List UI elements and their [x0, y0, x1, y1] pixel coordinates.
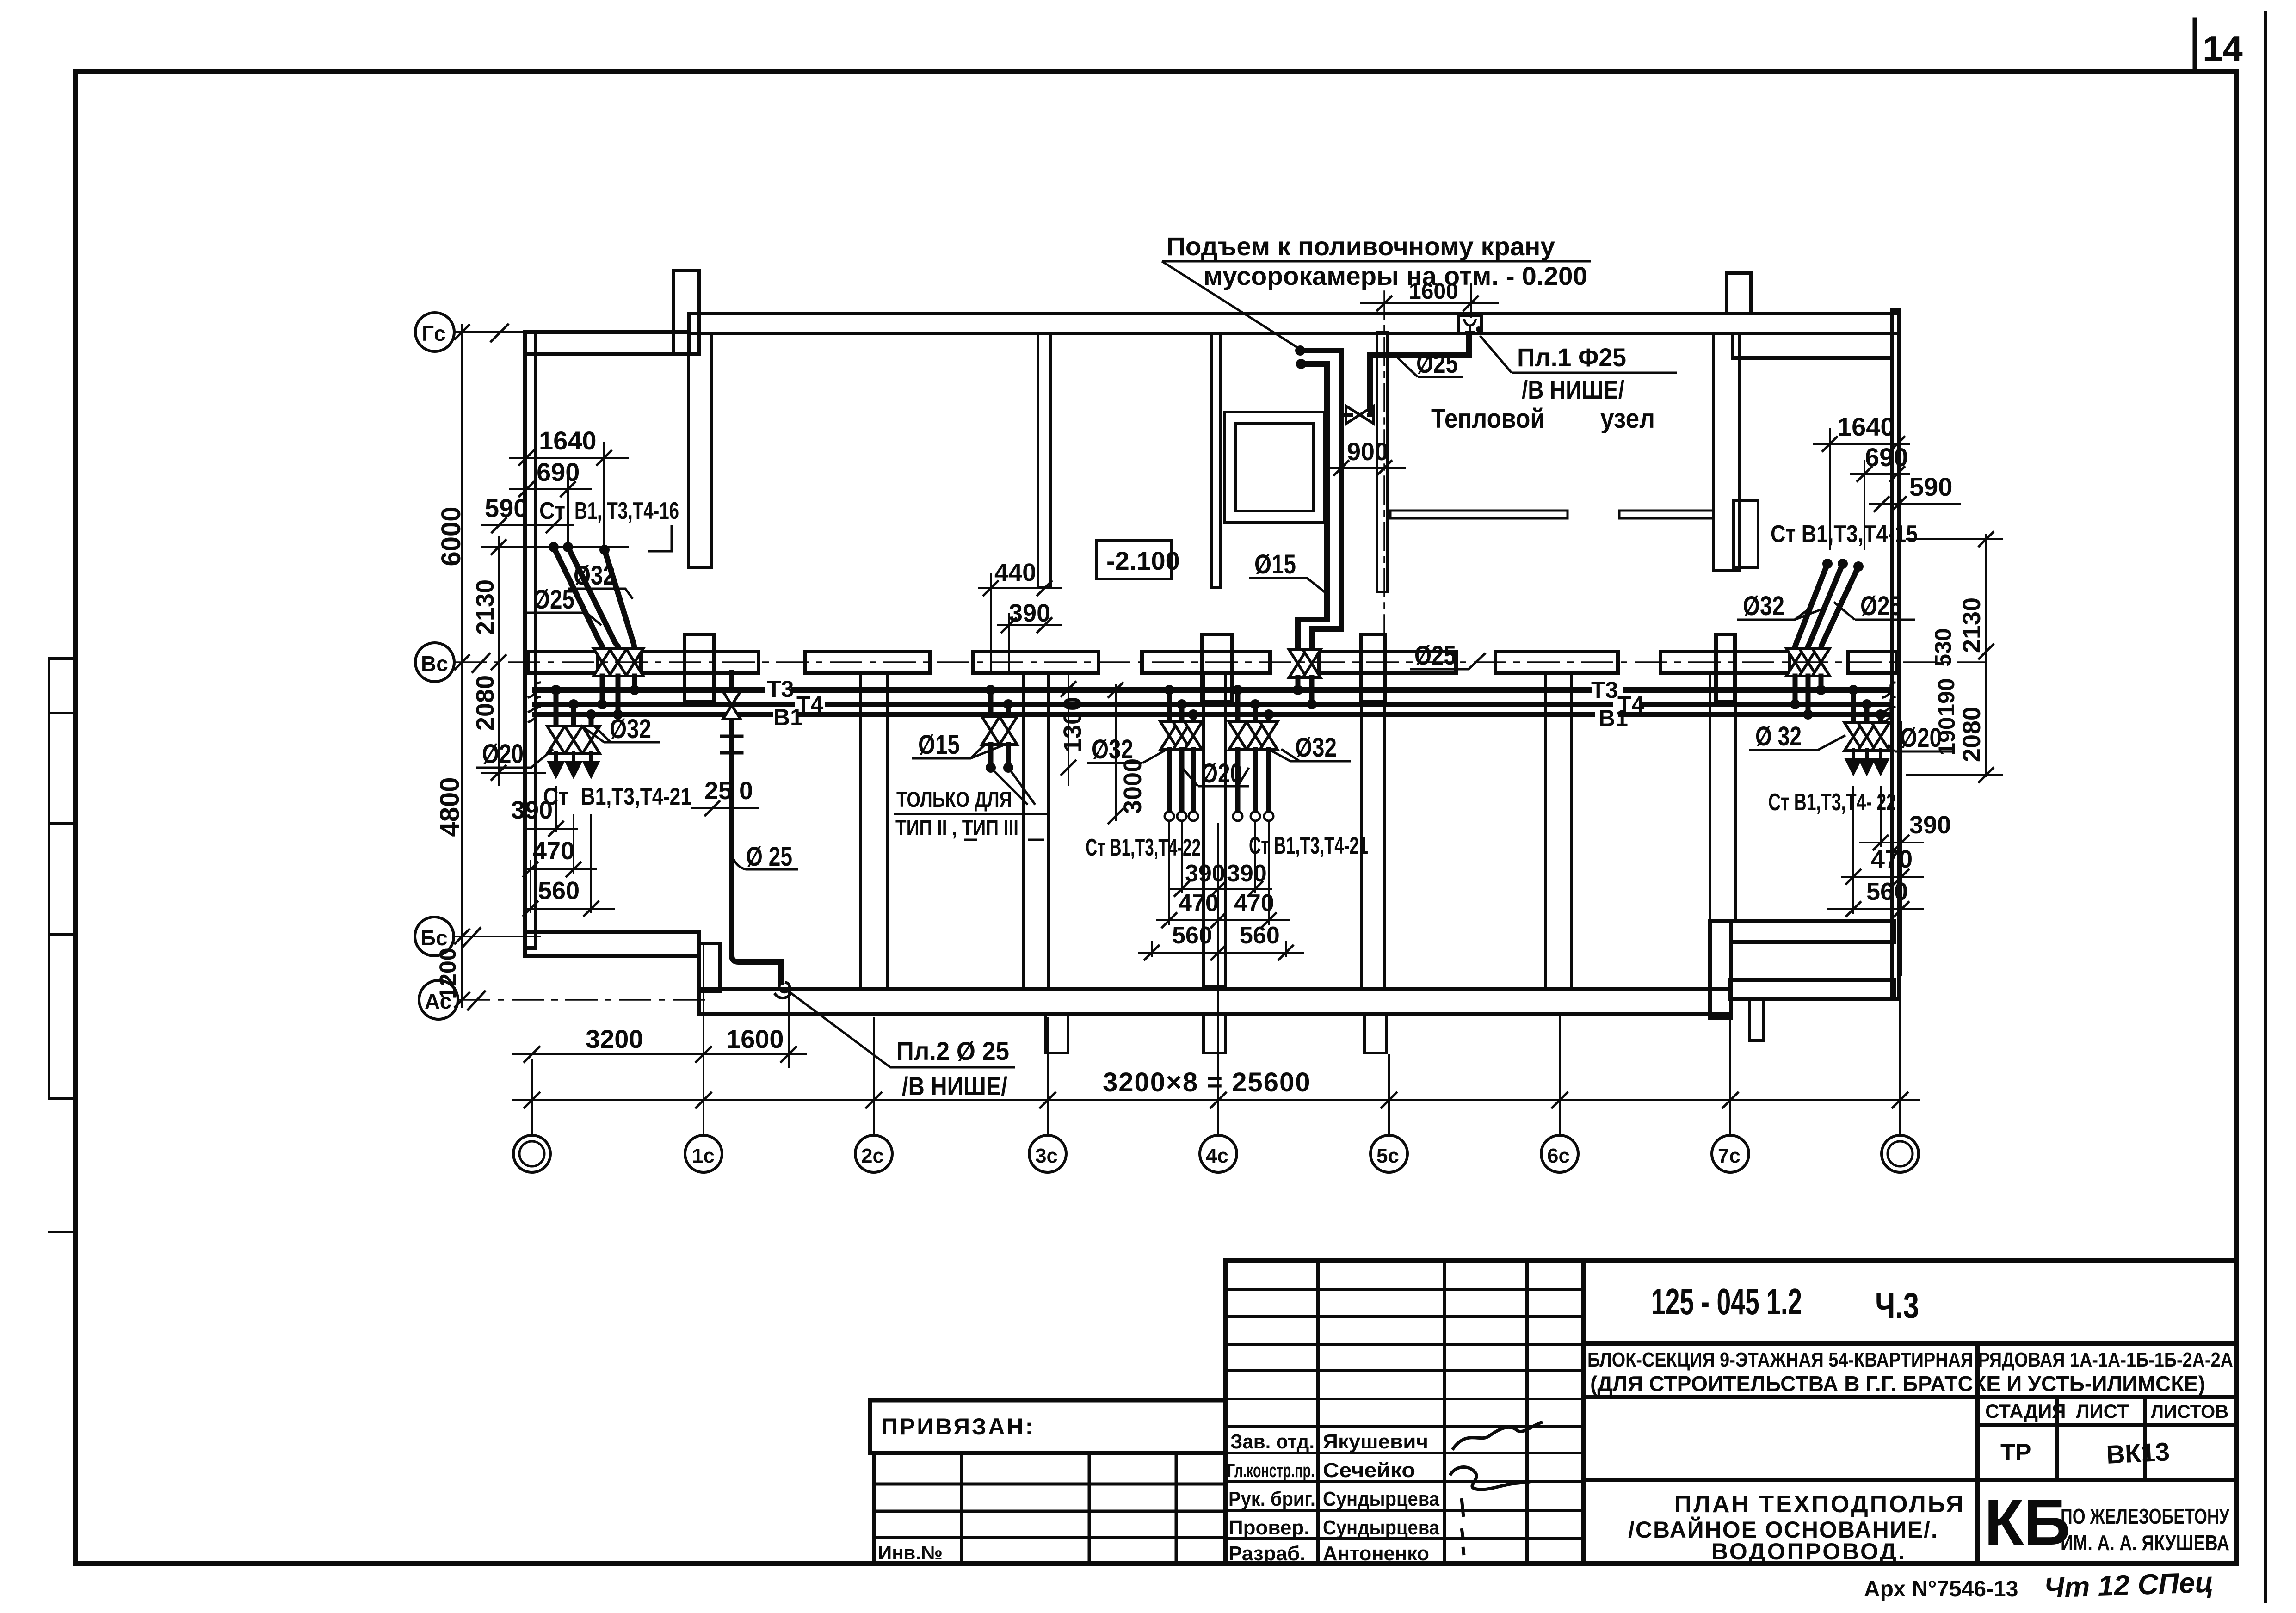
- main B1 pipe: [535, 712, 770, 717]
- tolko dlya leaders: [994, 771, 1035, 805]
- svg-text:Ст В1,Т3,Т4- 22: Ст В1,Т3,Т4- 22: [1768, 789, 1896, 816]
- axis As circle: [419, 980, 458, 1019]
- dim 690 right: [1850, 473, 1910, 475]
- svg-text:Сундырцева: Сундырцева: [1323, 1516, 1439, 1539]
- shelf partition left: [1390, 511, 1568, 518]
- axis 2c line: [873, 1017, 875, 1135]
- axis 5c circle: [1370, 1135, 1407, 1172]
- title block outer: [1226, 1261, 2236, 1564]
- Vs cross column at 1c bar: [641, 652, 759, 673]
- svg-text:Ст В1,Т3,Т4-21: Ст В1,Т3,Т4-21: [1249, 832, 1368, 859]
- pipe break marks right: [1883, 683, 1895, 697]
- axis 1c line: [703, 944, 704, 1135]
- svg-text:СТАДИЯ: СТАДИЯ: [1985, 1400, 2066, 1422]
- axis Bs line: [454, 936, 541, 937]
- partition above Vs near 3c: [1211, 333, 1220, 587]
- svg-text:Ø20: Ø20: [1201, 758, 1242, 788]
- svg-text:2130: 2130: [471, 579, 499, 635]
- shelf partition right: [1619, 511, 1713, 518]
- Vs wall segment left: [528, 652, 598, 673]
- title block right horizontals: [1583, 1341, 2236, 1346]
- extension lines 4c dims: [1168, 821, 1170, 925]
- axis Gs circle: [415, 313, 454, 351]
- right lower riser arrows: [1847, 750, 1859, 772]
- svg-text:Ø 25: Ø 25: [746, 842, 792, 872]
- svg-text:Ø25: Ø25: [1860, 591, 1902, 621]
- svg-text:Сундырцева: Сундырцева: [1323, 1488, 1439, 1510]
- main T4 pipe: [535, 702, 792, 707]
- svg-text:-2.100: -2.100: [1106, 546, 1180, 575]
- svg-text:690: 690: [537, 457, 580, 486]
- axis Vs line: [454, 661, 1986, 663]
- right slanted riser pipes to Vs wall valves: [1795, 564, 1827, 648]
- svg-text:560: 560: [538, 877, 580, 905]
- svg-text:2080: 2080: [471, 675, 499, 731]
- svg-text:470: 470: [533, 837, 574, 865]
- svg-text:1640: 1640: [1837, 412, 1895, 441]
- window box inner: [1236, 424, 1313, 511]
- svg-text:Ø20: Ø20: [1900, 723, 1942, 753]
- left lower riser arrows: [550, 753, 562, 775]
- Vs wall segment at 2c: [805, 652, 930, 673]
- svg-text:Арх N°7546-13: Арх N°7546-13: [1864, 1577, 2018, 1601]
- mid riser pair d15: [988, 690, 994, 717]
- axis line right end: [1899, 952, 1901, 1135]
- svg-text:6с: 6с: [1547, 1145, 1570, 1167]
- svg-text:ЛИСТ: ЛИСТ: [2076, 1400, 2129, 1422]
- dim 1640 right: [1813, 443, 1910, 445]
- musorokamera shaft wall: [1377, 332, 1388, 592]
- partition below 5c: [1361, 673, 1385, 989]
- svg-text:25: 25: [704, 777, 732, 805]
- svg-text:1600: 1600: [726, 1024, 784, 1053]
- svg-text:Провер.: Провер.: [1228, 1516, 1309, 1539]
- left exterior wall: [525, 332, 536, 948]
- riser group St 21 at 4c: [1235, 690, 1241, 723]
- level mark -2.100: [1096, 540, 1171, 579]
- teplovoy uzel wall pilaster: [1734, 501, 1758, 567]
- svg-text:ВК13: ВК13: [2105, 1437, 2170, 1469]
- axis As line: [458, 999, 708, 1001]
- axis line left end: [531, 1059, 533, 1135]
- svg-text:Гс: Гс: [422, 321, 446, 345]
- left main dim chain line: [461, 324, 463, 1008]
- axis 6c line: [1559, 1015, 1561, 1135]
- svg-text:125 - 045 1.2: 125 - 045 1.2: [1651, 1281, 1802, 1322]
- svg-text:560: 560: [1240, 922, 1280, 949]
- svg-text:900: 900: [1347, 438, 1389, 466]
- svg-text:690: 690: [1865, 443, 1908, 472]
- top pipes from musorokamera riser: dots: [1295, 345, 1305, 356]
- title block right verticals: [1975, 1343, 1980, 1564]
- svg-text:Якушевич: Якушевич: [1323, 1430, 1428, 1453]
- axis 7c circle: [1712, 1135, 1749, 1172]
- left lower riser group pipes: [554, 690, 559, 727]
- valves pair at Vs wall for d15 riser: [1289, 650, 1307, 677]
- axis Vs circle: [415, 643, 454, 682]
- stubs from right valves down to mains: [1793, 676, 1798, 704]
- dim 1600 top: [1360, 302, 1499, 304]
- dim 1300 vertical: [1068, 675, 1069, 786]
- svg-text:Пл.1 Φ25: Пл.1 Φ25: [1517, 343, 1626, 372]
- svg-text:Ø 32: Ø 32: [1755, 721, 1802, 751]
- right group extension lines: [1852, 786, 1854, 914]
- title block left verticals: [1316, 1261, 1320, 1564]
- top annotation leader: [1162, 261, 1298, 348]
- partition above Vs near 2c: [1038, 333, 1051, 587]
- valves on Vs wall right group: [1786, 648, 1804, 676]
- axis circle right end (unnamed): [1882, 1135, 1919, 1172]
- top wall left section: [525, 332, 689, 354]
- niche icon: [1464, 320, 1475, 332]
- top pipe runs: [1300, 351, 1341, 650]
- As bottom wall: [699, 989, 1731, 1014]
- axis Gs line: [454, 331, 525, 333]
- pile pillar right: [1749, 999, 1763, 1040]
- right lower riser group pipes: [1851, 690, 1856, 723]
- svg-text:/В НИШЕ/: /В НИШЕ/: [902, 1071, 1007, 1101]
- svg-text:мусорокамеры на отм. - 0.200: мусорокамеры на отм. - 0.200: [1204, 261, 1587, 290]
- svg-text:530: 530: [1930, 628, 1956, 666]
- svg-text:В1, Т3,Т4-16: В1, Т3,Т4-16: [574, 498, 679, 524]
- svg-text:Ø25: Ø25: [1414, 640, 1456, 671]
- teplovoy uzel wall: [1713, 333, 1739, 570]
- Vs cross column at 4c bar: [1142, 652, 1270, 673]
- right exterior wall: [1892, 310, 1899, 999]
- pile pillar 2: [1204, 1014, 1226, 1053]
- svg-text:390: 390: [1009, 599, 1050, 627]
- Pl.2 niche hook: [775, 983, 791, 998]
- svg-text:1600: 1600: [1409, 279, 1458, 304]
- right scan edge line: [2264, 13, 2267, 1601]
- Vs cross column at 1c post: [685, 634, 714, 702]
- svg-text:Подъем к поливочному крану: Подъем к поливочному крану: [1167, 232, 1555, 261]
- svg-text:В1: В1: [1599, 705, 1628, 731]
- page number box line: [2193, 19, 2197, 72]
- svg-text:ТР: ТР: [2000, 1439, 2031, 1466]
- svg-text:590: 590: [485, 493, 528, 523]
- svg-text:1с: 1с: [692, 1145, 715, 1167]
- axis Bs circle: [415, 917, 454, 956]
- svg-text:БЛОК-СЕКЦИЯ 9-ЭТАЖНАЯ 54-КВАРТ: БЛОК-СЕКЦИЯ 9-ЭТАЖНАЯ 54-КВАРТИРНАЯ РЯДО…: [1587, 1348, 2233, 1371]
- svg-text:Ø32: Ø32: [610, 714, 651, 744]
- top wall stub column 2: [1727, 273, 1751, 314]
- partition below 4c: [1204, 673, 1226, 986]
- svg-text:Ст В1,Т3,Т4-15: Ст В1,Т3,Т4-15: [1771, 521, 1918, 548]
- partition below 2c: [860, 673, 887, 989]
- svg-text:ИМ. А. А. ЯКУШЕВА: ИМ. А. А. ЯКУШЕВА: [2061, 1531, 2229, 1555]
- svg-text:3200: 3200: [586, 1024, 643, 1053]
- svg-text:2с: 2с: [861, 1145, 884, 1167]
- svg-text:390: 390: [1185, 860, 1225, 887]
- right dim chain vertical: [1985, 534, 1987, 777]
- pipe break marks left: [529, 683, 540, 697]
- svg-text:1640: 1640: [539, 426, 597, 455]
- Vs cross column at 4c post: [1202, 634, 1232, 702]
- Vs cross column at 7c bar: [1660, 652, 1790, 673]
- svg-text:470: 470: [1871, 845, 1913, 873]
- svg-text:ПРИВЯЗАН:: ПРИВЯЗАН:: [881, 1414, 1035, 1440]
- svg-text:ТИП II , ТИП III: ТИП II , ТИП III: [895, 815, 1018, 840]
- window box outer: [1224, 412, 1325, 523]
- svg-text:Тепловой: Тепловой: [1431, 404, 1545, 434]
- signature squiggles: [1450, 1422, 1543, 1555]
- svg-text:440: 440: [994, 559, 1036, 586]
- stubs from left valves down to mains: [600, 676, 605, 704]
- svg-text:Инв.№: Инв.№: [878, 1542, 943, 1564]
- niche feed pipe d25: [1370, 334, 1469, 410]
- axis 2c circle: [855, 1135, 892, 1172]
- svg-text:КБ: КБ: [1984, 1486, 2070, 1558]
- dim 690 left: [509, 488, 592, 490]
- svg-text:390: 390: [511, 796, 553, 824]
- svg-text:3000: 3000: [1119, 758, 1147, 814]
- pile pillar 1: [1046, 1014, 1068, 1053]
- left slanted riser pipes to Vs wall valves: [554, 547, 602, 648]
- Vs wall segment at 3c: [973, 652, 1099, 673]
- svg-text:Ø32: Ø32: [1295, 733, 1337, 763]
- partition below 6c: [1545, 673, 1571, 989]
- left margin binding boxes: [48, 659, 50, 1098]
- bottom right lower ledge wall: [1730, 980, 1894, 999]
- svg-text:2130: 2130: [1958, 597, 1986, 653]
- svg-text:Пл.2 Ø 25: Пл.2 Ø 25: [896, 1036, 1009, 1065]
- Pl.2 anchor symbol: [722, 736, 742, 753]
- svg-text:/В НИШЕ/: /В НИШЕ/: [1522, 375, 1624, 404]
- svg-text:4800: 4800: [435, 777, 465, 837]
- dim 590 right: [1869, 503, 1961, 505]
- label bracket: [648, 525, 672, 551]
- svg-text:Разраб.: Разраб.: [1228, 1542, 1305, 1565]
- privyazan block: [870, 1400, 1226, 1564]
- svg-text:Ø15: Ø15: [918, 730, 960, 760]
- svg-text:Антоненко: Антоненко: [1323, 1542, 1429, 1565]
- svg-text:Ч.3: Ч.3: [1875, 1285, 1919, 1326]
- top wall right section: [689, 314, 1899, 333]
- niche feed valve: [1346, 406, 1374, 424]
- svg-text:1300: 1300: [1059, 697, 1086, 752]
- svg-text:Ø32: Ø32: [1092, 734, 1133, 764]
- svg-text:Ст: Ст: [539, 498, 565, 524]
- main T3 pipe: [535, 687, 762, 693]
- axis 7c line: [1729, 999, 1731, 1135]
- svg-text:(ДЛЯ СТРОИТЕЛЬСТВА В Г.Г. БРА: (ДЛЯ СТРОИТЕЛЬСТВА В Г.Г. БРАТСКЕ И УСТЬ…: [1590, 1372, 2205, 1396]
- partition below 7c: [1710, 673, 1736, 921]
- left secondary dim chain: [498, 536, 500, 786]
- svg-text:Ø32: Ø32: [1743, 591, 1784, 621]
- svg-text:Сечейко: Сечейко: [1323, 1459, 1415, 1482]
- left lower riser valves: [547, 726, 565, 754]
- right lower riser valves: [1845, 723, 1862, 751]
- svg-text:590: 590: [1909, 472, 1952, 501]
- svg-text:5с: 5с: [1376, 1145, 1399, 1167]
- partition below 3c: [1023, 673, 1049, 989]
- dim line 25600: [512, 1099, 1920, 1101]
- axis 4c circle: [1200, 1135, 1237, 1172]
- svg-text:2080: 2080: [1958, 707, 1986, 762]
- riser group St 22 at 4c: [1167, 690, 1172, 723]
- niche Pl.1 in top wall: [1458, 316, 1481, 333]
- svg-text:Т3: Т3: [767, 676, 794, 702]
- svg-text:Т3: Т3: [1591, 677, 1618, 703]
- svg-text:ТОЛЬКО ДЛЯ: ТОЛЬКО ДЛЯ: [896, 787, 1012, 812]
- svg-text:1200: 1200: [435, 948, 461, 999]
- Bs-As step wall: [699, 943, 720, 991]
- top annotation underline: [1162, 260, 1591, 263]
- dim 1640 left: [509, 457, 629, 459]
- svg-text:470: 470: [1179, 890, 1219, 917]
- axis 4c line: [1217, 823, 1219, 1135]
- svg-text:0: 0: [739, 777, 753, 805]
- Vs cross column at 7c post: [1716, 634, 1735, 702]
- title block left horizontals: [1226, 1288, 1583, 1291]
- bottom right corner wall: [1710, 921, 1731, 1018]
- Pl.2 valve: [723, 691, 741, 719]
- svg-text:ПО ЖЕЛЕЗОБЕТОНУ: ПО ЖЕЛЕЗОБЕТОНУ: [2061, 1504, 2230, 1528]
- axis 5c line: [1388, 1054, 1390, 1135]
- svg-text:Вс: Вс: [421, 652, 448, 676]
- dim 3000 at 4c: [1115, 684, 1117, 821]
- svg-text:узел: узел: [1600, 404, 1655, 434]
- stubs below to mains: [1296, 677, 1301, 690]
- TITLE BLOCK: [1226, 1261, 2236, 1564]
- axis 3c circle: [1029, 1135, 1066, 1172]
- partition wall below stub 1: [689, 333, 712, 567]
- Vs wall segment right: [1848, 652, 1896, 673]
- svg-text:Ст В1,Т3,Т4-22: Ст В1,Т3,Т4-22: [1086, 834, 1201, 861]
- svg-text:В1,Т3,Т4-21: В1,Т3,Т4-21: [581, 783, 691, 810]
- svg-text:ВОДОПРОВОД.: ВОДОПРОВОД.: [1711, 1539, 1907, 1564]
- top wall stub column 1: [673, 271, 699, 354]
- svg-text:7с: 7с: [1718, 1145, 1741, 1167]
- svg-text:Бс: Бс: [420, 926, 448, 950]
- svg-text:390: 390: [1909, 811, 1951, 839]
- svg-text:4с: 4с: [1206, 1145, 1228, 1167]
- Vs cross column at 5c post: [1361, 634, 1385, 702]
- svg-text:Ø20: Ø20: [482, 739, 524, 769]
- Vs cross column at 5c bar: [1319, 652, 1456, 673]
- svg-text:560: 560: [1172, 922, 1212, 949]
- svg-text:Зав. отд.: Зав. отд.: [1230, 1430, 1315, 1453]
- axis 6c circle: [1541, 1135, 1578, 1172]
- svg-text:Ø15: Ø15: [1254, 549, 1296, 579]
- left group extension lines: [555, 786, 557, 832]
- svg-text:190: 190: [1933, 678, 1959, 716]
- Pl.2 leader and text: [786, 990, 1015, 1067]
- valves on Vs wall left group: [593, 648, 611, 676]
- svg-text:3с: 3с: [1035, 1145, 1058, 1167]
- bottom right upper wall: [1731, 921, 1894, 942]
- svg-text:Рук. бриг.: Рук. бриг.: [1228, 1488, 1315, 1510]
- svg-text:В1: В1: [773, 704, 803, 730]
- svg-text:Ø25: Ø25: [1416, 349, 1458, 379]
- svg-text:Гл.констр.пр.: Гл.констр.пр.: [1228, 1459, 1315, 1481]
- svg-text:6000: 6000: [436, 506, 466, 566]
- axis circle left end (unnamed): [513, 1135, 550, 1172]
- dim 590 left: [481, 524, 574, 526]
- svg-text:14: 14: [2203, 28, 2243, 69]
- Pl.2 vertical pipe: [732, 673, 781, 983]
- svg-text:Чт 12 СПец: Чт 12 СПец: [2043, 1566, 2214, 1604]
- Bs wall left: [525, 932, 699, 956]
- svg-text:3200×8 = 25600: 3200×8 = 25600: [1103, 1067, 1311, 1097]
- axis 1c circle: [685, 1135, 722, 1172]
- axis 3c line: [1047, 1017, 1049, 1135]
- svg-text:ПЛАН ТЕХПОДПОЛЬЯ: ПЛАН ТЕХПОДПОЛЬЯ: [1674, 1491, 1965, 1518]
- top wall inner band right: [1733, 333, 1892, 358]
- dim line 3200/1600: [512, 1053, 807, 1055]
- svg-text:Ø32: Ø32: [574, 560, 615, 591]
- svg-text:ЛИСТОВ: ЛИСТОВ: [2151, 1402, 2228, 1422]
- pile pillar 3: [1364, 1014, 1387, 1053]
- centerline of musorokamera axis: [1383, 291, 1385, 650]
- Vs wall segment at 6c: [1495, 652, 1618, 673]
